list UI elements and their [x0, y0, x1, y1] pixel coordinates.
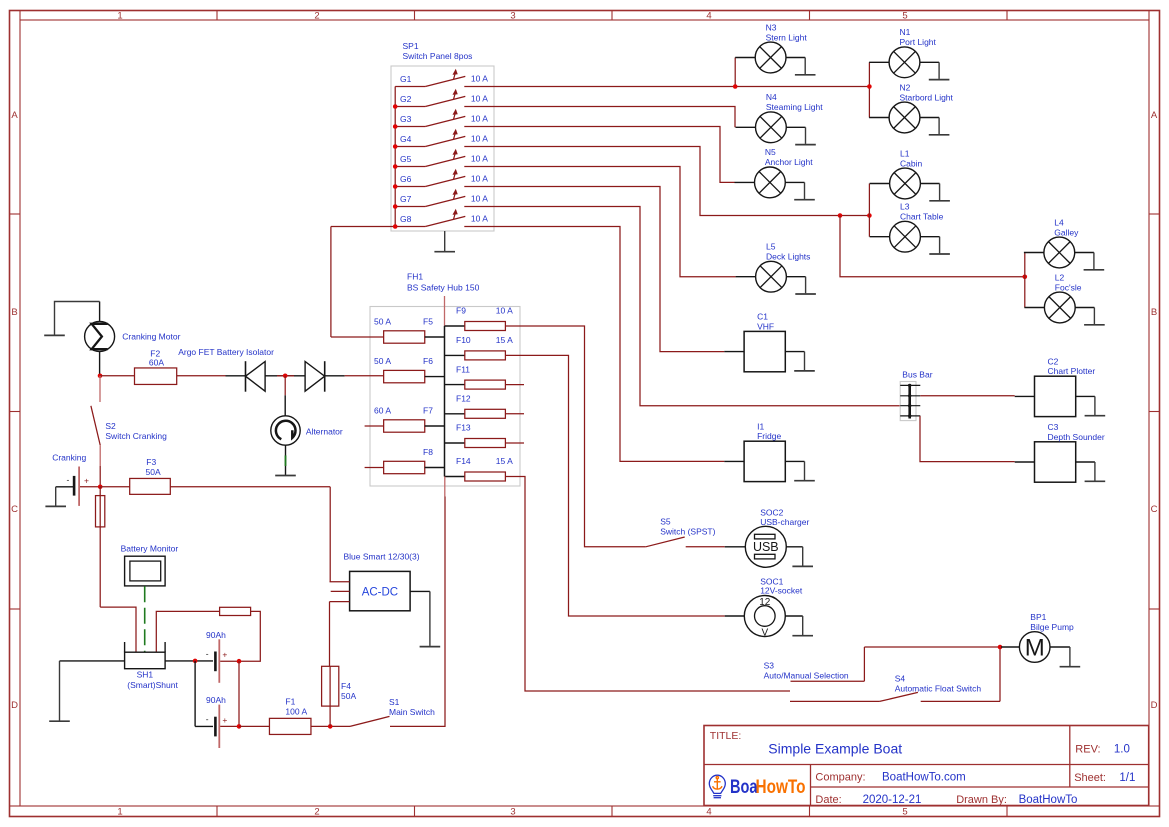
svg-text:F12: F12 — [456, 394, 471, 404]
svg-text:V: V — [761, 627, 768, 638]
svg-text:10 A: 10 A — [496, 306, 513, 316]
svg-text:G1: G1 — [400, 74, 412, 84]
svg-text:BoatHowTo: BoatHowTo — [1019, 794, 1078, 806]
svg-text:S1: S1 — [389, 697, 400, 707]
svg-text:100 A: 100 A — [285, 707, 307, 717]
svg-text:A: A — [1151, 110, 1158, 121]
svg-text:F7: F7 — [423, 405, 433, 415]
svg-text:50A: 50A — [341, 691, 356, 701]
svg-text:L4: L4 — [1054, 217, 1064, 227]
svg-text:Main Switch: Main Switch — [389, 707, 435, 717]
svg-text:L5: L5 — [766, 242, 776, 252]
svg-text:Bus Bar: Bus Bar — [902, 370, 932, 380]
svg-text:G4: G4 — [400, 134, 412, 144]
svg-text:F3: F3 — [146, 457, 156, 467]
svg-text:L1: L1 — [900, 148, 910, 158]
svg-text:G3: G3 — [400, 114, 412, 124]
svg-text:SOC2: SOC2 — [760, 508, 783, 518]
svg-text:2020-12-21: 2020-12-21 — [863, 794, 922, 806]
svg-text:Argo FET Battery Isolator: Argo FET Battery Isolator — [178, 347, 274, 357]
svg-text:F10: F10 — [456, 335, 471, 345]
svg-text:G7: G7 — [400, 194, 412, 204]
svg-text:N4: N4 — [766, 92, 777, 102]
svg-text:A: A — [11, 110, 18, 121]
svg-text:-: - — [206, 649, 209, 659]
svg-text:12V-socket: 12V-socket — [760, 586, 803, 596]
svg-text:5: 5 — [902, 806, 907, 817]
svg-text:Alternator: Alternator — [306, 427, 343, 437]
svg-text:50 A: 50 A — [374, 316, 391, 326]
svg-text:+: + — [222, 650, 227, 660]
svg-text:Chart Plotter: Chart Plotter — [1048, 366, 1096, 376]
svg-text:BS Safety Hub 150: BS Safety Hub 150 — [407, 283, 480, 293]
svg-text:(Smart)Shunt: (Smart)Shunt — [127, 680, 178, 690]
svg-text:Simple Example Boat: Simple Example Boat — [768, 741, 902, 757]
svg-text:15 A: 15 A — [496, 456, 513, 466]
svg-text:F13: F13 — [456, 423, 471, 433]
svg-text:Deck Lights: Deck Lights — [766, 252, 810, 262]
svg-text:N1: N1 — [900, 27, 911, 37]
svg-text:N2: N2 — [900, 82, 911, 92]
svg-text:10 A: 10 A — [471, 73, 488, 83]
svg-text:REV:: REV: — [1075, 744, 1100, 756]
svg-text:Cabin: Cabin — [900, 158, 922, 168]
svg-text:L2: L2 — [1055, 272, 1065, 282]
svg-text:L3: L3 — [900, 202, 910, 212]
svg-text:Switch (SPST): Switch (SPST) — [660, 527, 715, 537]
svg-text:4: 4 — [706, 806, 711, 817]
svg-text:G2: G2 — [400, 94, 412, 104]
svg-text:B: B — [1151, 307, 1157, 318]
svg-text:Sheet:: Sheet: — [1074, 772, 1106, 784]
svg-text:90Ah: 90Ah — [206, 630, 226, 640]
svg-text:G5: G5 — [400, 154, 412, 164]
svg-text:Switch Panel 8pos: Switch Panel 8pos — [403, 51, 473, 61]
svg-text:1.0: 1.0 — [1114, 744, 1130, 756]
svg-text:G8: G8 — [400, 214, 412, 224]
svg-text:Company:: Company: — [815, 772, 865, 784]
svg-text:Blue Smart 12/30(3): Blue Smart 12/30(3) — [344, 552, 420, 562]
svg-text:50 A: 50 A — [374, 356, 391, 366]
svg-text:2: 2 — [314, 806, 319, 817]
svg-text:90Ah: 90Ah — [206, 695, 226, 705]
svg-text:Auto/Manual Selection: Auto/Manual Selection — [764, 671, 849, 681]
svg-text:TITLE:: TITLE: — [710, 730, 742, 742]
svg-text:Depth Sounder: Depth Sounder — [1048, 432, 1105, 442]
svg-text:15 A: 15 A — [496, 335, 513, 345]
svg-text:I1: I1 — [757, 421, 764, 431]
svg-text:Steaming Light: Steaming Light — [766, 102, 823, 112]
svg-text:10 A: 10 A — [471, 153, 488, 163]
svg-text:F1: F1 — [285, 697, 295, 707]
svg-text:VHF: VHF — [757, 321, 774, 331]
svg-text:HowTo: HowTo — [756, 776, 806, 798]
svg-text:C3: C3 — [1048, 422, 1059, 432]
svg-text:10 A: 10 A — [471, 193, 488, 203]
svg-text:S3: S3 — [764, 661, 775, 671]
svg-text:G6: G6 — [400, 174, 412, 184]
svg-text:F5: F5 — [423, 316, 433, 326]
svg-text:D: D — [11, 700, 18, 711]
svg-text:3: 3 — [510, 10, 515, 21]
svg-text:3: 3 — [510, 806, 515, 817]
svg-text:N5: N5 — [765, 147, 776, 157]
svg-text:Chart Table: Chart Table — [900, 212, 944, 222]
svg-text:Galley: Galley — [1054, 227, 1079, 237]
svg-text:Port Light: Port Light — [900, 37, 937, 47]
svg-text:USB: USB — [753, 540, 779, 554]
svg-text:Date:: Date: — [815, 794, 841, 806]
svg-text:2: 2 — [314, 10, 319, 21]
svg-text:-: - — [67, 474, 70, 484]
svg-text:C2: C2 — [1048, 356, 1059, 366]
svg-text:5: 5 — [902, 10, 907, 21]
svg-text:F9: F9 — [456, 306, 466, 316]
svg-text:F11: F11 — [456, 364, 470, 374]
svg-text:Stern Light: Stern Light — [766, 32, 808, 42]
svg-text:N3: N3 — [766, 22, 777, 32]
svg-text:10 A: 10 A — [471, 173, 488, 183]
svg-text:C: C — [1151, 504, 1158, 515]
svg-text:B: B — [11, 307, 17, 318]
svg-text:Drawn By:: Drawn By: — [956, 794, 1007, 806]
svg-text:F14: F14 — [456, 456, 471, 466]
svg-text:1/1: 1/1 — [1119, 772, 1135, 784]
svg-text:50A: 50A — [146, 467, 161, 477]
svg-text:SP1: SP1 — [403, 41, 419, 51]
svg-text:C1: C1 — [757, 312, 768, 322]
svg-text:F4: F4 — [341, 681, 351, 691]
svg-text:C: C — [11, 504, 18, 515]
svg-text:+: + — [84, 475, 89, 485]
svg-text:M: M — [1025, 635, 1045, 662]
svg-text:10 A: 10 A — [471, 93, 488, 103]
svg-text:60A: 60A — [149, 358, 164, 368]
svg-text:Starbord Light: Starbord Light — [900, 92, 954, 102]
svg-text:Cranking: Cranking — [52, 452, 86, 462]
svg-text:FH1: FH1 — [407, 272, 423, 282]
svg-text:Fridge: Fridge — [757, 431, 781, 441]
svg-text:S2: S2 — [105, 421, 116, 431]
svg-text:Boa: Boa — [730, 776, 758, 798]
svg-text:+: + — [222, 715, 227, 725]
svg-text:Bilge Pump: Bilge Pump — [1030, 622, 1074, 632]
svg-text:10 A: 10 A — [471, 213, 488, 223]
svg-text:10 A: 10 A — [471, 113, 488, 123]
svg-text:1: 1 — [117, 10, 122, 21]
svg-text:Automatic Float Switch: Automatic Float Switch — [895, 684, 982, 694]
svg-text:BoatHowTo.com: BoatHowTo.com — [882, 772, 966, 784]
svg-text:Foc'sle: Foc'sle — [1055, 282, 1082, 292]
svg-text:12: 12 — [759, 597, 771, 608]
svg-text:Cranking Motor: Cranking Motor — [122, 332, 180, 342]
svg-text:F6: F6 — [423, 356, 433, 366]
svg-text:-: - — [206, 714, 209, 724]
svg-text:BP1: BP1 — [1030, 612, 1046, 622]
svg-text:S4: S4 — [895, 674, 906, 684]
svg-text:Switch Cranking: Switch Cranking — [105, 431, 167, 441]
svg-text:D: D — [1151, 700, 1158, 711]
svg-text:10 A: 10 A — [471, 133, 488, 143]
svg-text:USB-charger: USB-charger — [760, 517, 809, 527]
svg-text:SH1: SH1 — [137, 670, 154, 680]
svg-text:4: 4 — [706, 10, 711, 21]
svg-text:S5: S5 — [660, 517, 671, 527]
svg-text:F8: F8 — [423, 447, 433, 457]
svg-text:AC-DC: AC-DC — [362, 586, 398, 598]
svg-text:Battery Monitor: Battery Monitor — [121, 544, 179, 554]
svg-text:Anchor Light: Anchor Light — [765, 157, 813, 167]
svg-text:1: 1 — [117, 806, 122, 817]
svg-text:60 A: 60 A — [374, 405, 391, 415]
